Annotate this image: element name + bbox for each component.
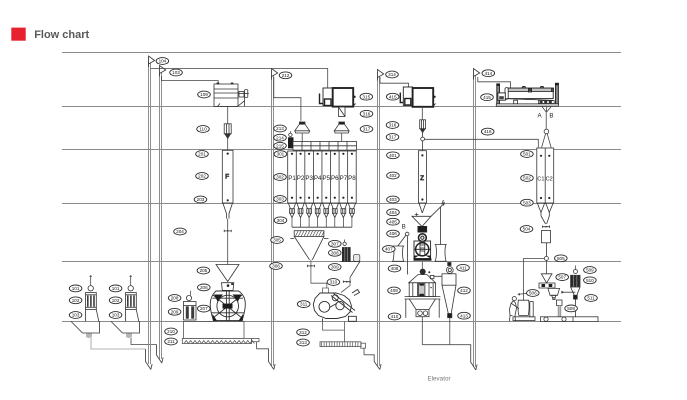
svg-text:B: B — [402, 224, 406, 230]
collection hopper 305 — [290, 231, 328, 260]
intake grate 2 — [126, 275, 139, 321]
label 110 — [197, 126, 210, 133]
svg-text:306: 306 — [272, 264, 280, 269]
funnel 205 — [216, 265, 239, 282]
funnel 213 — [295, 122, 310, 133]
P bins block — [288, 151, 357, 203]
label 404 — [387, 209, 400, 216]
svg-text:P8: P8 — [348, 175, 356, 182]
hammer mill 415 — [400, 87, 435, 107]
label 412 — [458, 287, 471, 294]
elevator 414 boot — [422, 345, 477, 370]
floor line 5 — [62, 203, 621, 205]
magnet 110 — [224, 124, 231, 139]
svg-text:302: 302 — [276, 175, 284, 180]
label 506 — [527, 290, 540, 297]
intake grate 1 — [86, 275, 99, 321]
svg-text:208: 208 — [171, 296, 179, 301]
label 510 — [584, 277, 597, 284]
label 317 — [360, 126, 373, 133]
elevator 314 leg — [378, 72, 380, 366]
svg-text:Flow chart: Flow chart — [34, 29, 89, 41]
svg-text:317: 317 — [389, 135, 397, 140]
funnel 317 — [334, 122, 349, 133]
label 102 — [109, 297, 122, 304]
svg-text:215: 215 — [276, 143, 284, 148]
label 207 — [198, 305, 211, 312]
svg-text:316: 316 — [363, 111, 371, 116]
svg-text:506: 506 — [529, 291, 537, 296]
svg-text:213: 213 — [276, 126, 284, 131]
label 305 — [271, 237, 284, 244]
svg-text:508: 508 — [567, 306, 575, 311]
svg-text:102: 102 — [112, 298, 120, 303]
line from magnet 416 to bin C1 — [425, 139, 539, 148]
svg-text:101: 101 — [112, 286, 120, 291]
label 505 — [555, 255, 568, 262]
label 401 — [387, 152, 400, 159]
svg-text:101: 101 — [72, 286, 80, 291]
bin F drop with valve 204 — [227, 219, 229, 265]
drag conveyor 313 — [320, 342, 366, 355]
svg-text:Z: Z — [420, 176, 424, 182]
label 303 — [274, 196, 287, 203]
svg-text:P1: P1 — [288, 175, 296, 182]
valve 504 — [543, 226, 550, 228]
svg-text:412: 412 — [460, 288, 468, 293]
weigher box — [539, 283, 555, 288]
label 402 — [387, 172, 400, 179]
svg-text:311: 311 — [300, 302, 308, 307]
intake chute 1 — [71, 321, 100, 338]
label 316 — [360, 110, 373, 117]
elevator 212 head flag — [272, 69, 278, 80]
svg-text:308: 308 — [331, 250, 339, 255]
label 316 — [386, 122, 399, 129]
bin F — [222, 150, 233, 218]
mixer 311 — [313, 288, 359, 321]
magnet 416 on Z feed — [420, 120, 426, 151]
label 102 — [69, 297, 82, 304]
elevator 103 discharge line to grinder 109 — [162, 76, 219, 84]
svg-text:303: 303 — [276, 197, 284, 202]
svg-text:309: 309 — [331, 265, 339, 270]
aspiration line with arrow — [561, 291, 575, 294]
svg-text:505: 505 — [557, 256, 565, 261]
svg-text:102: 102 — [72, 298, 80, 303]
distributor manifold 301 — [293, 142, 357, 151]
svg-text:207: 207 — [200, 306, 208, 311]
label 410 — [388, 313, 401, 320]
label 312 — [297, 329, 310, 336]
svg-text:301: 301 — [277, 152, 285, 157]
svg-text:316: 316 — [389, 123, 397, 128]
mill drop + rotary valve — [420, 262, 431, 275]
container (A) — [435, 245, 447, 262]
svg-text:403: 403 — [389, 197, 397, 202]
svg-text:507: 507 — [558, 275, 566, 280]
svg-text:307: 307 — [331, 241, 339, 246]
pellet mill conditioner — [418, 227, 427, 242]
drag conveyor 211 — [182, 339, 259, 349]
svg-text:205: 205 — [200, 268, 208, 273]
label 509 — [584, 267, 597, 274]
svg-text:211: 211 — [167, 339, 175, 344]
label 503 — [521, 199, 534, 206]
svg-text:110: 110 — [199, 127, 207, 132]
label 414 — [482, 70, 495, 77]
funnel 405 — [412, 216, 431, 226]
svg-text:414: 414 — [484, 71, 492, 76]
svg-text:P5: P5 — [322, 175, 330, 182]
label 310 — [327, 279, 340, 286]
svg-text:415: 415 — [389, 94, 397, 99]
label 407 — [383, 246, 396, 253]
svg-text:109: 109 — [200, 92, 208, 97]
sieve outlets A/B to junction — [542, 106, 552, 148]
intake chute 2 — [111, 321, 140, 338]
label 405 — [387, 218, 400, 225]
bag on scale — [513, 300, 535, 320]
platform 210 — [184, 321, 245, 338]
svg-text:502: 502 — [523, 176, 531, 181]
svg-text:409: 409 — [390, 288, 398, 293]
floor line 2 — [62, 52, 621, 54]
bag hopper — [548, 288, 560, 299]
drop to packing funnel — [545, 260, 547, 273]
svg-text:501: 501 — [523, 152, 531, 157]
elevator 104 head flag — [149, 56, 155, 67]
label 103 — [69, 312, 82, 319]
svg-text:P4: P4 — [314, 175, 322, 182]
svg-text:404: 404 — [389, 210, 397, 215]
svg-text:206: 206 — [200, 285, 208, 290]
label 214 — [274, 134, 287, 141]
drop line 109 to bin F — [227, 107, 229, 151]
label 308 — [329, 249, 342, 256]
svg-text:201: 201 — [198, 152, 206, 157]
elevator 104 discharge line to mill 315 — [151, 69, 328, 88]
label 103 — [170, 69, 183, 76]
elevator 314 head flag — [378, 70, 384, 81]
label 206 — [198, 284, 211, 291]
label 411 — [457, 264, 470, 271]
svg-text:405: 405 — [389, 219, 397, 224]
svg-text:C1: C1 — [537, 177, 544, 183]
label 413 — [458, 312, 471, 319]
svg-text:203: 203 — [197, 197, 205, 202]
elevator 212 leg — [272, 71, 274, 366]
svg-text:401: 401 — [389, 153, 397, 158]
label 501 — [521, 151, 534, 158]
label 205 — [197, 267, 210, 274]
svg-text:202: 202 — [198, 174, 206, 179]
506 pointer — [518, 293, 527, 295]
grinder 109 — [214, 83, 249, 107]
sieve machine 415 top right — [496, 83, 559, 106]
funnel 213 drop — [301, 133, 303, 142]
svg-text:415: 415 — [483, 95, 491, 100]
chute 1 to elevator 104 boot line — [91, 338, 146, 349]
header red square — [11, 28, 25, 41]
packing funnel — [541, 274, 552, 283]
bins C1 C2 — [537, 148, 554, 224]
svg-text:210: 210 — [167, 329, 175, 334]
svg-text:P7: P7 — [340, 175, 348, 182]
label 416 — [481, 128, 494, 135]
label 101 — [69, 285, 82, 292]
label 209 — [168, 308, 181, 315]
label 202 — [196, 173, 209, 180]
label 314 — [386, 71, 399, 78]
reference B marker — [398, 224, 409, 274]
valve 306 — [307, 265, 314, 267]
valve 204 — [224, 230, 231, 232]
label 415 — [481, 94, 494, 101]
elevator 314 discharge line to mill 415 — [380, 77, 409, 87]
svg-text:411: 411 — [459, 265, 467, 270]
label 302 — [274, 174, 287, 181]
output conveyor — [541, 300, 599, 322]
label 215 — [274, 142, 287, 149]
floor line 7 — [62, 321, 621, 323]
scale hopper under C bins — [542, 231, 551, 257]
label 504 — [520, 226, 533, 233]
cooler drop below floor — [421, 317, 423, 345]
svg-text:312: 312 — [299, 330, 307, 335]
svg-text:314: 314 — [388, 72, 396, 77]
svg-text:Elevator: Elevator — [427, 375, 450, 382]
svg-text:B: B — [549, 113, 553, 120]
label 109 — [198, 91, 211, 98]
label 203 — [194, 196, 207, 203]
valve tick on Z spout — [415, 213, 419, 216]
svg-text:416: 416 — [484, 129, 492, 134]
svg-text:305: 305 — [273, 238, 281, 243]
cyclone 412 — [442, 263, 456, 318]
svg-text:304: 304 — [277, 218, 285, 223]
elevator 414 leg — [474, 71, 476, 367]
label 309 — [329, 264, 342, 271]
svg-text:310: 310 — [330, 280, 338, 285]
label 406 — [387, 230, 400, 237]
svg-text:408: 408 — [391, 266, 399, 271]
hopper 305 drop to mixer 311 — [311, 260, 327, 288]
elevator 212 discharge line to funnel 213 — [274, 77, 301, 121]
elevator 104 leg — [149, 58, 151, 364]
label 313 — [297, 339, 310, 346]
label 212 — [279, 72, 292, 79]
cyclone drop below floor — [449, 318, 451, 345]
svg-text:F: F — [225, 174, 229, 181]
label 311 — [297, 301, 310, 308]
svg-text:407: 407 — [385, 247, 393, 252]
svg-text:103: 103 — [112, 313, 120, 318]
label 315 — [360, 93, 373, 100]
svg-text:212: 212 — [282, 73, 290, 78]
floor line 6 — [62, 261, 621, 263]
elevator 414 head flag — [474, 69, 480, 80]
label 511 — [585, 295, 598, 302]
label 307 — [329, 240, 342, 247]
svg-text:P6: P6 — [331, 175, 339, 182]
label 301 — [274, 151, 287, 158]
label 213 — [274, 125, 287, 132]
svg-text:P3: P3 — [305, 175, 313, 182]
label 508 — [565, 305, 578, 312]
309 drop to mixer — [341, 277, 350, 292]
svg-text:317: 317 — [363, 127, 371, 132]
svg-text:406: 406 — [389, 231, 397, 236]
label 211 — [165, 338, 178, 345]
svg-text:204: 204 — [176, 229, 184, 234]
svg-text:413: 413 — [460, 313, 468, 318]
magnet box 215 — [288, 131, 294, 148]
label 306 — [270, 263, 283, 270]
svg-text:509: 509 — [586, 268, 594, 273]
funnel 317 drop — [341, 133, 343, 142]
svg-text:P2: P2 — [297, 175, 305, 182]
label 304 — [274, 217, 287, 224]
hammer mill 315 — [320, 88, 356, 107]
junction circle 505 — [544, 256, 548, 260]
mixer 207 — [210, 291, 245, 321]
bag dump 208/209 — [184, 291, 197, 320]
svg-text:313: 313 — [299, 340, 307, 345]
label 409 — [388, 287, 401, 294]
pellet mill 408 — [414, 241, 432, 261]
P bin tapers and feeders — [288, 203, 355, 227]
svg-text:402: 402 — [389, 173, 397, 178]
elevator 212 boot — [257, 349, 276, 370]
floor line 3 — [62, 106, 621, 108]
svg-text:315: 315 — [362, 94, 370, 99]
elevator 314 boot — [364, 355, 381, 370]
label 408 — [388, 265, 401, 272]
svg-text:209: 209 — [171, 309, 179, 314]
label 507 — [556, 274, 569, 281]
mill 415 drop — [421, 107, 423, 120]
label 210 — [165, 328, 178, 335]
label 101 — [109, 285, 122, 292]
elevator 414 discharge line to sieve 415 — [478, 77, 511, 88]
surge feeder 206 — [222, 283, 234, 291]
svg-text:503: 503 — [523, 200, 531, 205]
mixer 311 discharge to conveyor 313 — [323, 321, 345, 330]
svg-text:104: 104 — [159, 59, 167, 64]
svg-text:504: 504 — [523, 227, 531, 232]
label 103 — [109, 312, 122, 319]
elevator 104 boot — [146, 349, 153, 370]
svg-text:C2: C2 — [546, 177, 553, 183]
svg-text:510: 510 — [586, 278, 594, 283]
label 317 — [386, 134, 399, 141]
person figure — [510, 297, 520, 322]
container 407 (B) — [392, 246, 404, 261]
elevator 103 head flag — [160, 66, 166, 77]
connector cooler-cyclone — [434, 275, 442, 277]
bin Z — [418, 151, 426, 213]
label 415 — [386, 93, 399, 100]
elevator 103 leg — [160, 67, 162, 359]
funnel 309 under floor — [340, 262, 360, 278]
svg-text:511: 511 — [587, 296, 595, 301]
line to bagging spout — [524, 258, 545, 300]
reference A marker — [431, 201, 445, 245]
svg-text:410: 410 — [391, 314, 399, 319]
svg-text:214: 214 — [276, 135, 284, 140]
label 403 — [387, 196, 400, 203]
label 204 — [174, 228, 187, 235]
label 502 — [521, 175, 534, 182]
label 208 — [168, 295, 181, 302]
label 104 — [156, 58, 169, 65]
chute 2 to elevator 103 boot line — [131, 338, 157, 345]
surge bin 308 (dark) — [342, 240, 360, 262]
mill 315 discharge box — [339, 107, 346, 117]
label 201 — [196, 151, 209, 158]
filter 510 — [571, 266, 580, 317]
svg-text:103: 103 — [72, 313, 80, 318]
cooler 409 — [405, 275, 441, 318]
svg-text:103: 103 — [172, 70, 180, 75]
elevator 103 boot — [157, 345, 164, 364]
valve 310 — [343, 281, 350, 283]
floor line 4 — [62, 149, 621, 151]
